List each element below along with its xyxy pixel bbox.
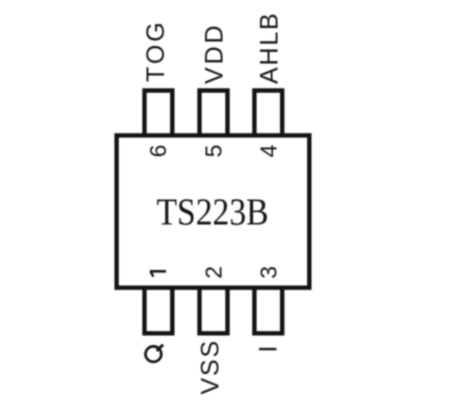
svg-text:6: 6 bbox=[145, 145, 171, 158]
svg-text:AHLB: AHLB bbox=[256, 11, 284, 84]
svg-text:3: 3 bbox=[256, 266, 282, 279]
svg-text:VDD: VDD bbox=[201, 23, 229, 84]
svg-text:VSS: VSS bbox=[197, 339, 225, 394]
svg-text:I: I bbox=[255, 344, 283, 353]
svg-text:4: 4 bbox=[256, 144, 282, 157]
svg-text:2: 2 bbox=[201, 266, 227, 279]
svg-text:TS223B: TS223B bbox=[156, 191, 268, 233]
svg-text:TOG: TOG bbox=[142, 19, 170, 82]
svg-text:5: 5 bbox=[201, 145, 227, 158]
